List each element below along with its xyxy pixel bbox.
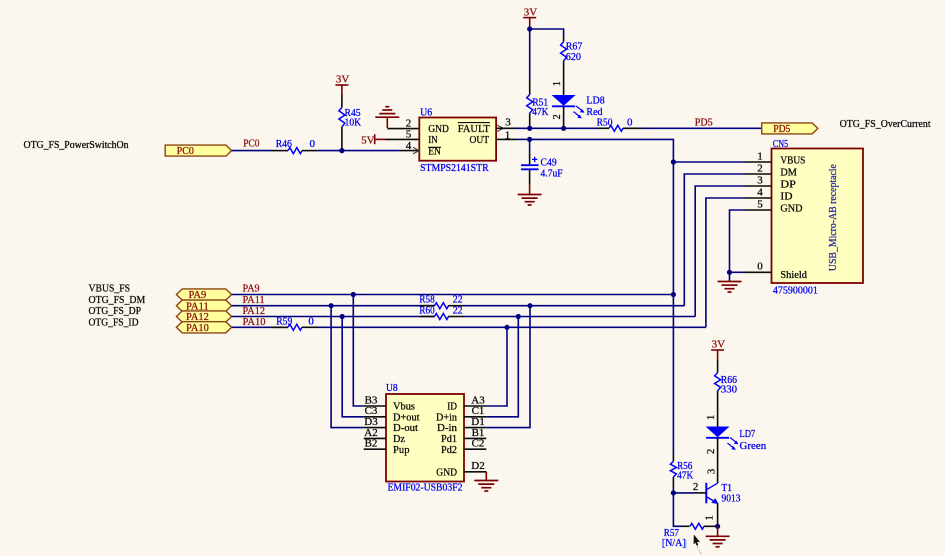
pin R60.2 — [448, 316, 464, 318]
svg-text:ID: ID — [780, 191, 792, 203]
wire 3V stem maroon — [341, 85, 343, 95]
pin R56.2 — [672, 477, 674, 487]
pin R57.2 — [704, 525, 717, 527]
svg-text:Pd2: Pd2 — [441, 444, 457, 456]
port PA9 — [176, 289, 231, 301]
pin R57.1 — [681, 525, 690, 527]
pin R59.2 — [302, 326, 318, 328]
wire emitter to ground — [717, 526, 719, 536]
wire PA9 row — [232, 294, 674, 296]
svg-text:C2: C2 — [472, 438, 485, 450]
svg-text:PD5: PD5 — [773, 123, 791, 135]
wire gnd stem — [386, 117, 388, 128]
resistor R51 — [527, 80, 549, 128]
wire VBUS to CN5.1 — [673, 161, 743, 163]
svg-text:PC0: PC0 — [243, 138, 260, 150]
svg-text:4.7uF: 4.7uF — [541, 168, 563, 180]
svg-text:R60: R60 — [419, 305, 435, 317]
svg-text:VBUS_FS: VBUS_FS — [89, 283, 131, 295]
wire PA9 to U8.B3 — [353, 295, 363, 407]
svg-text:47K: 47K — [532, 106, 548, 118]
port PD5 — [762, 123, 818, 135]
zigzag R56 — [670, 461, 676, 477]
zigzag R67 — [561, 42, 567, 61]
svg-text:47K: 47K — [677, 470, 693, 482]
wire R56 to base — [672, 487, 674, 493]
op-amp U6 (power switch STMPS2141STR) — [406, 106, 512, 174]
svg-text:3V: 3V — [524, 6, 538, 18]
LED LD8 — [552, 95, 585, 118]
svg-text:3V: 3V — [712, 339, 726, 351]
junction PA12 to U8 D+out — [340, 314, 345, 319]
pin CN5.0 — [744, 271, 772, 273]
pin U6.4 EN — [399, 150, 419, 152]
pin T1 base — [695, 492, 706, 494]
svg-text:1: 1 — [757, 150, 763, 162]
capacitor C49 — [521, 139, 563, 184]
svg-text:DP: DP — [780, 179, 796, 191]
svg-text:OTG_FS_OverCurrent: OTG_FS_OverCurrent — [840, 118, 931, 130]
svg-text:OTG_FS_ID: OTG_FS_ID — [89, 316, 139, 328]
wire C49 to ground — [529, 184, 531, 194]
ground (U6 GND pin) — [375, 107, 399, 118]
svg-text:OTG_FS_DM: OTG_FS_DM — [89, 294, 146, 306]
pin C49.+ — [529, 151, 531, 164]
junction PC0/R45/EN — [339, 148, 344, 153]
zigzag R45 — [339, 107, 345, 126]
wire PA12 to U8.C3 — [342, 317, 364, 417]
svg-text:5: 5 — [406, 129, 412, 141]
pin 4 EN input arrow — [413, 147, 419, 153]
svg-text:475900001: 475900001 — [773, 284, 818, 296]
zigzag R57 — [690, 523, 704, 529]
wire PA11 row left — [232, 305, 435, 307]
svg-text:[N/A]: [N/A] — [662, 537, 686, 549]
pin U8.C1 — [464, 416, 486, 418]
zigzag R59 — [288, 324, 302, 330]
svg-text:2: 2 — [552, 114, 563, 119]
svg-text:3V: 3V — [336, 74, 350, 86]
junction R51/FAULT — [527, 126, 532, 131]
wire R46 to node — [318, 150, 342, 152]
pin U8.B2 — [364, 448, 386, 450]
pin U8.C2 — [464, 448, 486, 450]
wire gnd to U6 pin2 — [387, 128, 419, 130]
svg-text:Pup: Pup — [393, 444, 410, 456]
pin CN5.2 — [744, 173, 772, 175]
text caret — [685, 539, 687, 549]
svg-text:U6: U6 — [420, 106, 433, 118]
svg-text:PA10: PA10 — [243, 316, 266, 328]
power 3V (LD7) — [711, 339, 725, 351]
svg-text:1: 1 — [552, 81, 563, 86]
pin 3 FAULT output arrow — [497, 125, 504, 131]
svg-text:GND: GND — [436, 466, 457, 478]
svg-text:R46: R46 — [276, 138, 293, 150]
zigzag R66 — [715, 373, 721, 391]
svg-text:CN5: CN5 — [773, 138, 789, 150]
svg-text:0: 0 — [627, 117, 633, 129]
svg-text:3: 3 — [707, 469, 718, 474]
pin U8.D3 — [364, 427, 386, 429]
connector CN5 (USB Micro-AB) — [772, 138, 864, 296]
svg-text:2: 2 — [757, 162, 763, 174]
junction emitter/R57/gnd — [715, 524, 720, 529]
power 5V — [361, 134, 385, 146]
svg-text:5V: 5V — [361, 134, 375, 146]
wire 3V stem maroon — [529, 18, 531, 29]
mouse cursor — [694, 535, 702, 554]
svg-text:R50: R50 — [597, 117, 613, 129]
ground (U8) — [474, 481, 498, 492]
junction PA11/D-in vertical — [527, 303, 532, 308]
svg-text:OTG_FS_PowerSwitchOn: OTG_FS_PowerSwitchOn — [24, 139, 129, 151]
pin U8.A2 — [364, 437, 386, 439]
pin R58.1 — [420, 305, 435, 307]
svg-text:2: 2 — [406, 117, 412, 129]
pin R45.2 — [341, 127, 343, 151]
resistor R50 — [597, 117, 641, 132]
wire node to U6.EN — [342, 150, 399, 152]
wire PA11 to U8.D3 — [331, 306, 364, 428]
junction VBUS — [671, 159, 676, 164]
pin U6.1 OUT — [496, 138, 516, 140]
pin R51.1 — [529, 80, 531, 95]
pin C49.- — [529, 169, 531, 184]
svg-text:3: 3 — [505, 117, 511, 129]
transistor T1 (NPN 9013) — [706, 482, 741, 505]
wire DP to CN5.3 — [695, 186, 743, 317]
svg-text:4: 4 — [757, 186, 763, 198]
junction 3V split — [527, 26, 532, 31]
port PA11 — [176, 300, 231, 312]
svg-text:PA9: PA9 — [243, 283, 261, 295]
power 3V (R45) — [335, 74, 349, 86]
wire U8.A3 to PA10 row — [486, 327, 507, 406]
pin CN5.5 — [744, 209, 772, 211]
wire PA12 row right — [464, 316, 695, 318]
resistor R60 — [419, 305, 464, 320]
wire OUT net vertical — [530, 139, 674, 455]
pin U8.C3 — [364, 416, 386, 418]
junction PA9 to U8 Vbus — [351, 292, 356, 297]
svg-text:1: 1 — [705, 515, 716, 520]
wire base — [673, 492, 695, 494]
wire PA10 row left — [232, 326, 288, 328]
wire 3V to R51 — [529, 29, 531, 80]
pin U6.3 FAULT — [496, 127, 516, 129]
pin U8.D2 — [464, 471, 486, 473]
ic U8 (EMIF02-USB03F2) — [386, 382, 464, 493]
pin CN5.1 — [744, 161, 772, 163]
wire U8 D2 to ground — [485, 472, 487, 481]
svg-text:OTG_FS_DP: OTG_FS_DP — [89, 305, 142, 317]
pin U8.D1 — [464, 427, 486, 429]
svg-text:PA10: PA10 — [186, 322, 209, 334]
port PA10 — [176, 322, 231, 334]
svg-text:R59: R59 — [276, 315, 293, 327]
pin R50.1 — [597, 127, 609, 129]
resistor R57 — [662, 523, 717, 549]
wire PA12 row left — [232, 316, 435, 318]
pin R50.2 — [623, 127, 641, 129]
junction PA10/ID vertical — [504, 325, 509, 330]
pin R67.2 — [563, 61, 565, 95]
svg-text:1: 1 — [706, 415, 717, 420]
wire ID to CN5.4 — [706, 198, 744, 327]
junction PA11 to U8 D-out — [329, 303, 334, 308]
zigzag R46 — [288, 148, 302, 154]
resistor R46 — [272, 138, 318, 154]
resistor R67 — [561, 38, 583, 96]
pin R46.1 — [272, 150, 288, 152]
svg-text:4: 4 — [406, 140, 412, 152]
pin R67.1 — [563, 38, 565, 42]
wire OUT to C49 node — [516, 138, 530, 140]
junction PA12/D+in vertical — [516, 314, 521, 319]
wire 5V to U6 pin5 — [385, 138, 419, 140]
wire LD7 to T1 collector — [717, 438, 719, 483]
junction base/R57 — [671, 490, 676, 495]
junction LD8/FAULT — [561, 126, 566, 131]
zigzag R58 — [435, 303, 449, 309]
resistor R59 — [272, 315, 318, 330]
wire DM to CN5.2 — [684, 174, 743, 306]
wire shield — [730, 271, 744, 273]
pin T1 emitter — [717, 503, 719, 526]
ground (T1) — [706, 536, 730, 547]
pin LD8.2 — [563, 107, 565, 129]
wire PA10 row right — [318, 326, 706, 328]
pin R59.1 — [272, 326, 288, 328]
pin R66.1 — [717, 361, 719, 373]
wire to R57 — [673, 493, 681, 526]
svg-text:Shield: Shield — [780, 269, 807, 281]
wire R50 to PD5 port — [641, 127, 762, 129]
wire PC0 to R46 — [232, 150, 272, 152]
power 3V (LED rail) — [523, 6, 537, 18]
ground (CN5) — [718, 282, 742, 293]
wire OUT to C49 — [529, 139, 531, 151]
ground (C49) — [518, 195, 542, 206]
resistor R58 — [419, 294, 464, 309]
svg-text:10K: 10K — [345, 116, 362, 128]
junction shield/gnd — [727, 270, 732, 275]
pin R58.2 — [448, 305, 464, 307]
svg-text:USB_Micro-AB receptacle: USB_Micro-AB receptacle — [827, 164, 839, 271]
wire U8.D1 to PA11 row — [486, 306, 530, 428]
svg-text:STMPS2141STR: STMPS2141STR — [420, 162, 489, 174]
pin R56.1 — [672, 455, 674, 461]
svg-text:PD5: PD5 — [695, 117, 713, 129]
pin R60.1 — [420, 316, 435, 318]
svg-text:9013: 9013 — [722, 493, 741, 505]
svg-text:3: 3 — [757, 174, 763, 186]
svg-text:VBUS: VBUS — [780, 155, 805, 167]
wire FAULT run — [516, 127, 597, 129]
pin U8.B1 — [464, 437, 486, 439]
pin CN5.4 — [744, 197, 772, 199]
pin R66.2 — [717, 391, 719, 427]
zigzag R60 — [435, 314, 449, 320]
port PC0 — [165, 145, 231, 157]
pin R51.2 — [529, 113, 531, 128]
pin U8.A3 — [464, 405, 486, 407]
wire U8.C1 to PA12 row — [486, 317, 518, 417]
wire GND to CN5.5 — [730, 210, 744, 282]
pin CN5.3 — [744, 185, 772, 187]
svg-text:PC0: PC0 — [177, 145, 195, 157]
junction PA9/VBUS vertical — [671, 292, 676, 297]
svg-text:PA9: PA9 — [189, 289, 207, 301]
svg-text:2: 2 — [706, 449, 717, 454]
svg-text:U8: U8 — [386, 382, 398, 394]
svg-text:620: 620 — [566, 51, 582, 63]
svg-text:LD7: LD7 — [740, 428, 756, 440]
pin U8.B3 — [364, 405, 386, 407]
resistor R66 — [715, 361, 738, 427]
svg-text:2: 2 — [693, 481, 699, 493]
wire PA11 row right — [464, 305, 684, 307]
port PA12 — [176, 311, 231, 323]
resistor R45 — [339, 95, 361, 151]
zigzag R51 — [527, 95, 533, 114]
svg-text:330: 330 — [721, 383, 738, 395]
svg-text:LD8: LD8 — [586, 95, 605, 107]
pin R45.1 — [341, 95, 343, 108]
svg-text:B2: B2 — [365, 438, 378, 450]
svg-text:0: 0 — [308, 315, 314, 327]
svg-text:D2: D2 — [471, 460, 484, 472]
pin R46.2 — [302, 150, 318, 152]
svg-text:0: 0 — [310, 138, 316, 150]
svg-text:5: 5 — [757, 198, 763, 210]
svg-text:OUT: OUT — [470, 134, 490, 146]
junction OUT/C49 — [527, 137, 532, 142]
LED LD7 — [706, 427, 739, 450]
svg-text:Green: Green — [740, 440, 767, 452]
resistor R56 — [670, 455, 693, 487]
svg-text:DM: DM — [780, 167, 797, 179]
svg-text:EMIF02-USB03F2: EMIF02-USB03F2 — [388, 482, 463, 494]
zigzag R50 — [609, 125, 623, 131]
svg-text:0: 0 — [757, 261, 763, 273]
wire 3V to R67 — [530, 29, 564, 38]
svg-text:22: 22 — [453, 305, 463, 317]
wire 3V stem maroon — [717, 350, 719, 361]
svg-text:GND: GND — [780, 203, 802, 215]
